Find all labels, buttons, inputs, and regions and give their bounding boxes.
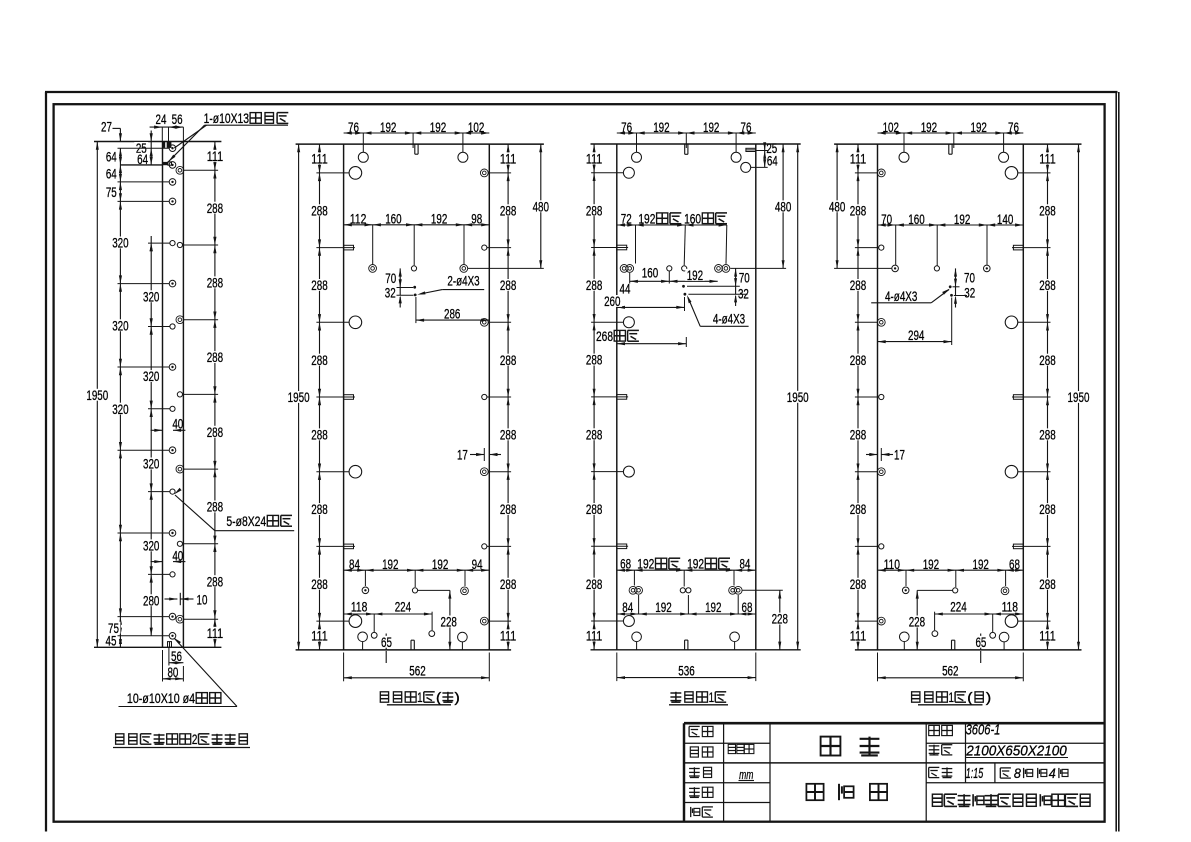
- svg-text:288: 288: [207, 425, 223, 441]
- svg-text:286: 286: [444, 306, 460, 322]
- svg-text:64: 64: [106, 150, 117, 166]
- panel2 right dimension chain 111 288x6 111: [507, 144, 509, 650]
- panel4 left dimension chain 111 288x6 111: [857, 144, 859, 650]
- svg-text:320: 320: [112, 236, 128, 252]
- panel3 228 dimension: [779, 590, 781, 650]
- panel3 top dimension row 76 192 192 76: [617, 132, 756, 134]
- svg-text:94: 94: [472, 557, 483, 573]
- svg-text:288: 288: [850, 203, 866, 219]
- svg-text:192: 192: [655, 600, 671, 616]
- svg-text:320: 320: [143, 457, 159, 473]
- svg-text:1: 1: [417, 690, 423, 705]
- svg-text:192: 192: [705, 600, 721, 616]
- title block outer frame: [683, 723, 685, 822]
- panel3 left dimension chain 111 288x6 111: [593, 144, 595, 650]
- svg-text:480: 480: [533, 199, 549, 215]
- svg-text:1: 1: [709, 690, 715, 705]
- panel2 middle row holes: [369, 265, 377, 273]
- panel3 left edge slots: [617, 245, 627, 250]
- svg-text:288: 288: [850, 353, 866, 369]
- panel3 top holes: [632, 152, 642, 162]
- strip bottom dimension 80: [162, 650, 164, 682]
- svg-text:192: 192: [653, 120, 669, 136]
- panel4 bottom dimension row 110 192 192 68: [878, 569, 1024, 571]
- svg-text:68: 68: [742, 600, 753, 616]
- svg-text:192: 192: [687, 268, 703, 284]
- panel4 outline 外侧板1件(右): [834, 143, 1081, 145]
- svg-text:68: 68: [1009, 557, 1020, 573]
- svg-text:111: 111: [311, 629, 327, 645]
- svg-text:288: 288: [500, 278, 516, 294]
- svg-text:8: 8: [1014, 765, 1021, 781]
- svg-text:288: 288: [1039, 353, 1055, 369]
- svg-text:192: 192: [973, 557, 989, 573]
- strip left outer dimension chain 64 64 75 320s 75 45: [119, 148, 121, 647]
- panel4 228 dimension: [917, 589, 953, 591]
- strip panel outline 外侧前封板条: [94, 141, 221, 143]
- outer border frame: [45, 92, 47, 832]
- panel3 mini dimensions 25 64: [764, 144, 766, 167]
- panel4 left column holes: [877, 169, 885, 177]
- title block row lines: [684, 742, 770, 744]
- panel2 lower small holes: [371, 632, 377, 638]
- panel4 top center notch: [948, 144, 950, 154]
- svg-text:288: 288: [850, 278, 866, 294]
- panel3 536 overall width dimension: [616, 653, 618, 682]
- svg-text:70: 70: [881, 212, 892, 228]
- svg-text:76: 76: [621, 120, 632, 136]
- panel2 562 overall width dimension: [343, 653, 345, 682]
- svg-text:288: 288: [207, 350, 223, 366]
- svg-text:111: 111: [850, 152, 866, 168]
- svg-text:68: 68: [620, 557, 631, 573]
- svg-text:65: 65: [381, 635, 392, 651]
- panel3 outline 中侧板1件: [591, 143, 801, 145]
- panel4 mini dimension 17: [866, 454, 878, 456]
- svg-text:111: 111: [207, 626, 223, 642]
- svg-text:111: 111: [207, 149, 223, 165]
- svg-text:288: 288: [500, 203, 516, 219]
- svg-text:2-ø4X3: 2-ø4X3: [447, 272, 479, 288]
- svg-text:228: 228: [441, 615, 457, 631]
- strip caption 外侧前封板条2件分左右: [116, 734, 124, 744]
- svg-text:111: 111: [1039, 629, 1055, 645]
- svg-text:288: 288: [207, 276, 223, 292]
- title label 效对: [689, 787, 700, 789]
- svg-text:4-ø4X3: 4-ø4X3: [713, 311, 745, 327]
- svg-text:288: 288: [311, 203, 327, 219]
- panel2 228 dimension: [418, 589, 450, 591]
- panel2 bottom dimension row 84 192 192 94: [344, 569, 490, 571]
- panel3 middle row holes: [620, 265, 628, 273]
- panel4 65 dimension: [980, 634, 982, 650]
- svg-text:160: 160: [684, 211, 701, 227]
- svg-text:480: 480: [775, 200, 791, 216]
- panel3 left column hinge holes: [623, 167, 634, 178]
- title company 东莞恒兴家私制造有限公司: [932, 794, 942, 806]
- svg-text:288: 288: [850, 502, 866, 518]
- panel3 corner hole ø: [741, 162, 751, 172]
- svg-text:320: 320: [112, 318, 128, 334]
- svg-text:288: 288: [586, 577, 602, 593]
- strip top edge slot 1-ø10X13: [163, 142, 165, 148]
- svg-text:56: 56: [171, 649, 182, 665]
- svg-text:192: 192: [430, 120, 446, 136]
- svg-text:110: 110: [884, 557, 900, 573]
- panel3 dimension row 160 192: [630, 280, 718, 282]
- panel4 dimension row 224 118: [935, 613, 1024, 615]
- panel3 bottom row hole pairs: [629, 586, 637, 594]
- svg-text:111: 111: [586, 152, 602, 168]
- svg-text:72: 72: [621, 211, 632, 227]
- svg-text:288: 288: [311, 353, 327, 369]
- svg-text:102: 102: [468, 120, 484, 136]
- strip inner dimension chain 25 64 320s 280: [150, 131, 152, 165]
- svg-text:5-ø8X24: 5-ø8X24: [226, 514, 266, 530]
- panel4 top holes: [899, 152, 909, 162]
- svg-text:288: 288: [1039, 203, 1055, 219]
- strip mini dimension 10: [179, 593, 181, 605]
- svg-text:80: 80: [167, 665, 178, 681]
- svg-text:268: 268: [596, 329, 613, 345]
- svg-text:480: 480: [829, 199, 845, 215]
- svg-text:288: 288: [1039, 428, 1055, 444]
- svg-text:228: 228: [772, 612, 788, 628]
- panel3 1950 dimension: [797, 144, 799, 650]
- svg-text:1950: 1950: [86, 388, 108, 404]
- panel4 middle row holes: [892, 265, 899, 272]
- svg-text:17: 17: [894, 448, 905, 464]
- panel2 left dimension chain 111 288x6 111: [319, 144, 321, 650]
- svg-text:27: 27: [101, 120, 112, 136]
- strip side slot at 64 row: [163, 162, 168, 165]
- svg-text:288: 288: [500, 353, 516, 369]
- panel4 right edge slots: [1013, 245, 1023, 250]
- svg-text:140: 140: [997, 212, 1013, 228]
- svg-text:192: 192: [638, 211, 655, 227]
- svg-text:118: 118: [1002, 600, 1018, 616]
- panel3 480 dimension: [782, 144, 784, 268]
- svg-text:192: 192: [923, 557, 939, 573]
- title value 唐文清: [728, 744, 735, 753]
- svg-text:562: 562: [942, 664, 958, 680]
- svg-text:562: 562: [409, 664, 425, 680]
- panel4 bottom hole circles: [900, 632, 910, 642]
- strip right dimension chain 111 288x6 111: [214, 142, 216, 648]
- svg-text:): ): [986, 690, 992, 705]
- panel2 right column holes: [480, 169, 488, 177]
- svg-text:160: 160: [385, 212, 401, 228]
- panel4 right column hinge holes: [1005, 167, 1018, 180]
- svg-text:118: 118: [351, 600, 367, 616]
- svg-text:84: 84: [349, 557, 360, 573]
- title main 衣柜: [821, 737, 841, 756]
- panel2 bottom row holes: [362, 587, 369, 594]
- svg-text:10-ø10X10 ø4: 10-ø10X10 ø4: [127, 691, 195, 707]
- panel2 480 dimension: [540, 144, 542, 268]
- svg-text:10: 10: [197, 592, 208, 608]
- svg-text:64: 64: [767, 153, 778, 169]
- svg-text:288: 288: [311, 278, 327, 294]
- svg-text:76: 76: [1008, 120, 1019, 136]
- svg-text:111: 111: [500, 629, 516, 645]
- panel2 286 dimension: [415, 297, 417, 323]
- strip holes column ø8X24 (small type): [170, 241, 175, 246]
- panel3 bottom hole circles: [632, 632, 642, 642]
- svg-text:1950: 1950: [1068, 390, 1090, 406]
- svg-text:45: 45: [106, 634, 117, 650]
- svg-text:224: 224: [395, 600, 411, 616]
- svg-text:98: 98: [471, 212, 482, 228]
- svg-text:320: 320: [143, 369, 159, 385]
- svg-text:192: 192: [431, 212, 447, 228]
- svg-text:102: 102: [883, 120, 899, 136]
- svg-text:288: 288: [1039, 502, 1055, 518]
- panel2 1950 dimension: [298, 144, 300, 650]
- panel4 caption 外侧板1件(右): [912, 692, 920, 702]
- panel3 dimension row 84 192 192 68: [617, 613, 756, 615]
- strip bottom edge slot: [168, 642, 172, 648]
- panel2 bottom hole circles: [358, 632, 368, 642]
- svg-text:288: 288: [500, 502, 516, 518]
- svg-text:160: 160: [908, 212, 924, 228]
- panel4 middle dimension row 70 160 192 140: [878, 224, 1024, 226]
- panel2 ø4X3 dots: [413, 286, 416, 289]
- panel2 middle dimension row 112 160 192 98: [344, 224, 490, 226]
- panel2 mini dimension 70 32: [399, 268, 401, 295]
- svg-text:288: 288: [500, 428, 516, 444]
- svg-text:192: 192: [687, 557, 704, 573]
- panel3 ø4X3 dots: [682, 285, 685, 288]
- panel2 outline 外侧板1件(左): [296, 143, 544, 145]
- panel4 ø4X3 dots: [949, 285, 952, 288]
- strip holes column ø10X10 (dot type): [169, 145, 176, 152]
- panel3 upper dimension row 72 192钻下 160钻下: [617, 224, 727, 226]
- svg-text:70: 70: [739, 271, 750, 287]
- svg-text:84: 84: [739, 557, 750, 573]
- panel2 65 dimension: [385, 634, 387, 650]
- svg-text:320: 320: [143, 289, 159, 305]
- svg-text:4-ø4X3: 4-ø4X3: [885, 288, 917, 304]
- panel3 top right edge slot: [746, 148, 756, 151]
- svg-text:288: 288: [586, 502, 602, 518]
- panel3 bottom dimension row 68 192钻下 192钻下 84: [617, 569, 756, 571]
- panel4 562 overall width dimension: [877, 653, 879, 682]
- strip 1950 overall dimension: [96, 142, 98, 648]
- svg-text:17: 17: [457, 448, 468, 464]
- panel2 left edge slots: [344, 245, 354, 250]
- svg-text:1950: 1950: [787, 390, 809, 406]
- svg-text:76: 76: [348, 120, 359, 136]
- svg-text:192: 192: [637, 557, 654, 573]
- panel4 bottom row holes: [902, 587, 909, 594]
- svg-text:32: 32: [385, 286, 396, 302]
- svg-text:288: 288: [207, 201, 223, 217]
- svg-text:1950: 1950: [288, 390, 310, 406]
- svg-text:84: 84: [622, 600, 633, 616]
- panel2 caption 外侧板1件(左): [380, 692, 388, 702]
- svg-text:288: 288: [207, 574, 223, 590]
- svg-text:65: 65: [975, 635, 986, 651]
- strip hole row lines: [118, 147, 170, 149]
- title label 制图: [690, 747, 698, 757]
- svg-text:280: 280: [143, 593, 159, 609]
- svg-text:288: 288: [1039, 278, 1055, 294]
- inner border frame: [54, 104, 1105, 822]
- title label 单位: [689, 768, 700, 770]
- svg-text:56: 56: [172, 112, 183, 128]
- panel3 bottom center notch: [684, 640, 686, 650]
- panel3 268钻下 dimension: [617, 343, 687, 345]
- panel4 top dimension row 102 192 192 76: [878, 132, 1024, 134]
- panel4 294 dimension: [951, 298, 953, 346]
- svg-text:2: 2: [192, 732, 198, 747]
- title block column lines: [723, 723, 725, 822]
- panel2 top dimension row 76 192 192 102: [344, 132, 490, 134]
- svg-text:70: 70: [385, 271, 396, 287]
- svg-text:288: 288: [850, 428, 866, 444]
- svg-text:224: 224: [950, 600, 966, 616]
- panel2 top holes: [358, 152, 368, 162]
- svg-text:260: 260: [604, 294, 620, 310]
- title main 施工图: [806, 784, 823, 800]
- svg-text:192: 192: [432, 557, 448, 573]
- svg-text:(: (: [967, 690, 973, 705]
- panel4 1950 dimension: [1078, 144, 1080, 650]
- panel3 mini dimension 70 32: [735, 268, 737, 294]
- panel2 bottom center notch: [410, 640, 412, 650]
- svg-text:4: 4: [1049, 765, 1056, 781]
- svg-text:192: 192: [380, 120, 396, 136]
- svg-text:2100X650X2100: 2100X650X2100: [965, 742, 1067, 759]
- svg-text:32: 32: [964, 286, 975, 302]
- panel4 480 dimension: [836, 144, 838, 268]
- svg-text:mm: mm: [739, 767, 753, 782]
- svg-text:192: 192: [921, 120, 937, 136]
- svg-text:288: 288: [500, 577, 516, 593]
- svg-text:24: 24: [156, 112, 167, 128]
- svg-text:294: 294: [908, 328, 924, 344]
- svg-text:288: 288: [850, 577, 866, 593]
- svg-text:192: 192: [703, 120, 719, 136]
- svg-text:1: 1: [948, 690, 954, 705]
- panel4 lower small holes: [990, 632, 996, 638]
- svg-text:1:15: 1:15: [966, 766, 984, 782]
- svg-text:288: 288: [311, 502, 327, 518]
- title label 代号: [929, 725, 940, 735]
- panel4 bottom center notch: [951, 640, 953, 650]
- svg-text:112: 112: [350, 212, 366, 228]
- svg-text:288: 288: [586, 353, 602, 369]
- svg-text:70: 70: [964, 271, 975, 287]
- svg-text:192: 192: [954, 212, 970, 228]
- svg-text:228: 228: [909, 615, 925, 631]
- strip right holes column: [176, 166, 184, 174]
- svg-text:320: 320: [112, 402, 128, 418]
- svg-text:192: 192: [382, 557, 398, 573]
- title value 共8张第4张: [1000, 767, 1011, 769]
- title label 规格: [929, 745, 940, 747]
- svg-text:288: 288: [311, 428, 327, 444]
- svg-text:111: 111: [311, 152, 327, 168]
- panel3 caption 中侧板1件: [670, 692, 681, 694]
- svg-text:288: 288: [586, 278, 602, 294]
- panel2 left column hinge holes: [349, 167, 362, 180]
- svg-text:160: 160: [642, 266, 658, 282]
- svg-text:(: (: [436, 690, 442, 705]
- panel4 right dimension chain 111 288x6 111: [1047, 144, 1049, 650]
- panel3 260 dimension: [617, 306, 685, 308]
- svg-text:64: 64: [106, 167, 117, 183]
- svg-text:111: 111: [1039, 152, 1055, 168]
- svg-text:111: 111: [500, 152, 516, 168]
- strip bottom dimension 56: [168, 647, 170, 665]
- svg-text:288: 288: [1039, 577, 1055, 593]
- title label 比例: [929, 766, 940, 768]
- panel2 dimension row 118 224: [344, 613, 433, 615]
- title label 审批: [690, 807, 692, 817]
- svg-text:288: 288: [207, 500, 223, 516]
- svg-text:75: 75: [106, 185, 117, 201]
- svg-text:3606-1: 3606-1: [966, 723, 1001, 739]
- panel3 top center notch: [684, 144, 686, 154]
- svg-text:288: 288: [311, 577, 327, 593]
- svg-text:111: 111: [586, 629, 602, 645]
- svg-text:192: 192: [971, 120, 987, 136]
- title label 设计: [689, 725, 700, 727]
- panel4 mini dimension 70 32: [955, 268, 957, 295]
- svg-text:): ): [454, 690, 460, 705]
- svg-text:111: 111: [850, 629, 866, 645]
- svg-text:536: 536: [678, 664, 694, 680]
- svg-text:288: 288: [586, 203, 602, 219]
- svg-text:76: 76: [741, 120, 752, 136]
- svg-text:288: 288: [586, 427, 602, 443]
- svg-text:320: 320: [143, 539, 159, 555]
- panel2 top center notch: [414, 144, 416, 154]
